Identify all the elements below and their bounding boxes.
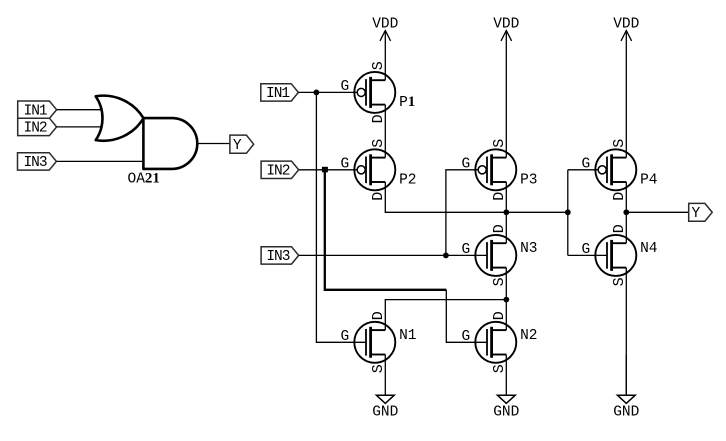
nmos N3 xyxy=(462,224,538,286)
wire P4 drain to Y node xyxy=(625,182,627,212)
nmos N4 xyxy=(582,224,658,286)
pmos P3 xyxy=(462,139,538,201)
svg-text:S: S xyxy=(611,139,628,148)
svg-text:G: G xyxy=(462,242,471,258)
svg-text:Y: Y xyxy=(691,206,700,222)
pmos P4 xyxy=(582,139,658,201)
input tag IN3 xyxy=(261,247,299,265)
svg-text:G: G xyxy=(462,157,471,173)
svg-text:N1: N1 xyxy=(399,328,416,344)
svg-text:IN2: IN2 xyxy=(24,121,47,137)
svg-text:P2: P2 xyxy=(399,172,416,188)
wire IN1 to P1 gate xyxy=(299,91,358,93)
wire across to N1 drain xyxy=(385,300,506,331)
svg-text:P4: P4 xyxy=(640,172,657,188)
output tag Y (gate symbol) xyxy=(230,135,254,154)
node IN1 junction xyxy=(314,90,320,96)
wire IN3 up to P3 gate xyxy=(446,170,478,256)
svg-text:S: S xyxy=(491,364,508,373)
input tag IN2 xyxy=(261,161,299,179)
svg-text:D: D xyxy=(491,224,508,233)
wire P3 drain to output node xyxy=(505,182,507,212)
svg-text:S: S xyxy=(491,277,508,286)
wire N3 source down xyxy=(505,268,507,300)
label OA21 xyxy=(128,171,160,188)
svg-text:Y: Y xyxy=(233,138,242,154)
wire Y node to Y tag xyxy=(626,211,688,213)
svg-text:D: D xyxy=(611,192,628,201)
svg-text:IN1: IN1 xyxy=(24,103,47,119)
svg-text:S: S xyxy=(370,61,387,70)
input tag IN3 (gate symbol) xyxy=(18,153,57,171)
svg-text:D: D xyxy=(491,192,508,201)
svg-text:OA: OA xyxy=(128,172,146,188)
wire IN2 to P2 gate xyxy=(299,169,357,171)
wire IN2 down to N2 gate xyxy=(446,290,487,343)
wire IN3 to AND gate xyxy=(57,160,144,162)
svg-text:S: S xyxy=(370,364,387,373)
wire to N4 gate xyxy=(568,254,607,256)
svg-text:D: D xyxy=(611,224,628,233)
node IN2 junction xyxy=(322,167,328,173)
ground GND 2 xyxy=(493,355,519,421)
svg-text:N3: N3 xyxy=(520,241,537,257)
svg-text:D: D xyxy=(370,192,387,201)
svg-text:P3: P3 xyxy=(520,172,537,188)
node output Y junction xyxy=(623,209,629,215)
svg-text:D: D xyxy=(370,114,387,123)
svg-text:IN2: IN2 xyxy=(266,164,289,180)
power VDD rail 1 xyxy=(372,17,398,81)
svg-text:N4: N4 xyxy=(640,241,657,257)
ground GND 1 xyxy=(372,355,398,421)
svg-text:IN1: IN1 xyxy=(266,86,289,102)
nmos N1 xyxy=(341,311,417,373)
wire down to N2 drain xyxy=(505,300,507,331)
svg-text:N2: N2 xyxy=(520,328,537,344)
svg-text:S: S xyxy=(611,277,628,286)
svg-text:D: D xyxy=(370,311,387,320)
output tag Y xyxy=(689,203,713,222)
wire N3 drain up to output node xyxy=(505,212,507,243)
nmos N2 xyxy=(462,311,538,373)
svg-text:P: P xyxy=(399,95,408,111)
svg-text:GND: GND xyxy=(372,405,398,421)
input tag IN1 (gate symbol) xyxy=(18,101,57,119)
svg-text:G: G xyxy=(341,329,350,345)
svg-text:G: G xyxy=(582,242,591,258)
wire IN2 to OR gate xyxy=(57,126,102,128)
pmos P1 xyxy=(341,61,416,123)
svg-text:GND: GND xyxy=(613,405,639,421)
svg-text:S: S xyxy=(370,139,387,148)
node IN3 junction xyxy=(443,253,449,259)
AND gate (of OA21 symbol) xyxy=(143,118,197,169)
input tag IN2 (gate symbol) xyxy=(18,118,57,136)
wire AND output to Y tag xyxy=(197,143,230,145)
svg-text:GND: GND xyxy=(493,405,519,421)
pmos P2 xyxy=(341,139,417,201)
svg-text:G: G xyxy=(341,79,350,95)
svg-text:IN3: IN3 xyxy=(266,249,289,265)
svg-text:IN3: IN3 xyxy=(23,155,46,171)
wire P1 drain to P2 source xyxy=(384,105,386,158)
ground GND 3 xyxy=(613,355,639,421)
wire IN1 down to N1 gate xyxy=(316,92,366,342)
wire IN3 to N3 gate xyxy=(299,254,487,256)
node stage-1 output to inverter gates xyxy=(565,209,571,215)
power VDD rail 2 xyxy=(493,17,519,158)
wire IN1 to OR gate xyxy=(57,109,102,111)
svg-text:D: D xyxy=(491,311,508,320)
svg-text:G: G xyxy=(462,329,471,345)
svg-text:G: G xyxy=(582,157,591,173)
wire N4 source to GND xyxy=(625,268,627,396)
input tag IN1 xyxy=(261,84,299,102)
svg-text:G: G xyxy=(341,157,350,173)
wire inverter gate vertical xyxy=(567,170,569,256)
power VDD rail 3 xyxy=(613,17,639,158)
svg-text:S: S xyxy=(491,139,508,148)
wire IN2 down and over xyxy=(325,170,447,290)
node stage-1 output at P3 drain xyxy=(503,209,509,215)
wire N4 drain to Y node xyxy=(625,212,627,243)
node N3 source / N1 N2 drains xyxy=(503,297,509,303)
svg-text:1: 1 xyxy=(408,94,416,110)
OR gate (of OA21 symbol) xyxy=(96,96,144,141)
svg-text:21: 21 xyxy=(145,171,160,187)
wire P2 drain to output node xyxy=(385,182,568,212)
wire to P4 gate xyxy=(568,169,598,171)
